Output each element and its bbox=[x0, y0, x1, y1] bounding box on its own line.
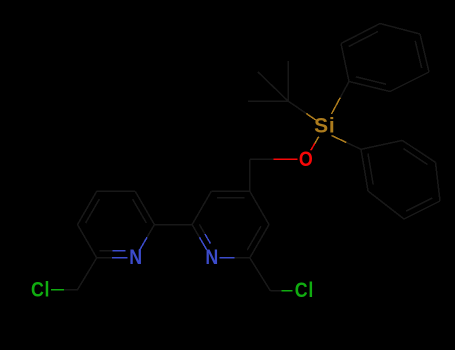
svg-text:O: O bbox=[299, 148, 314, 172]
svg-text:Cl: Cl bbox=[295, 279, 314, 303]
svg-text:N: N bbox=[205, 246, 219, 270]
svg-text:Si: Si bbox=[314, 115, 335, 138]
svg-text:N: N bbox=[129, 246, 143, 270]
svg-text:Cl: Cl bbox=[31, 278, 50, 302]
